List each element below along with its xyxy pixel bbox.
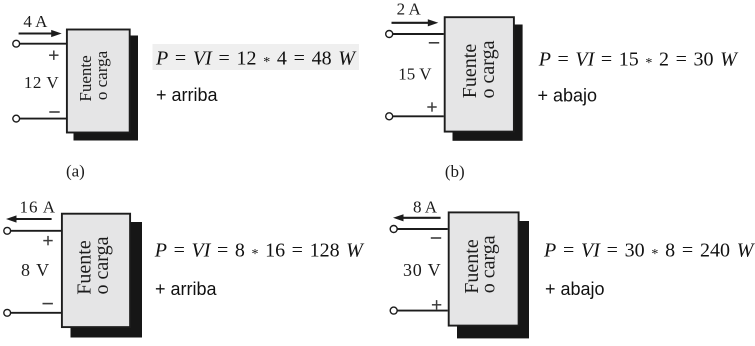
wire, top terminal to box, a — [20, 43, 66, 45]
svg-text:P = VI = 30 * 8 = 240 W: P = VI = 30 * 8 = 240 W — [543, 240, 755, 263]
wire, bottom terminal to box, b — [393, 115, 444, 117]
polarity sign plus (top), c — [43, 236, 52, 245]
svg-text:o carga: o carga — [477, 40, 499, 98]
polarity sign plus (bottom), b — [427, 102, 436, 111]
polarity sign minus (top), b — [429, 42, 439, 44]
formula highlight background — [153, 44, 360, 70]
wire, bottom terminal to box, a — [20, 118, 66, 120]
svg-text:16 A: 16 A — [20, 198, 57, 217]
current direction arrow 16 A, c — [6, 215, 52, 222]
box Ua drop shadow — [74, 36, 139, 141]
polarity sign minus (top), d — [431, 237, 441, 239]
svg-text:+ arriba: + arriba — [155, 279, 218, 299]
terminal (open circle), bottom, a — [13, 115, 20, 122]
svg-text:(a): (a) — [66, 162, 85, 181]
terminal (open circle), top, b — [386, 31, 393, 38]
current direction arrow 8 A, d — [393, 214, 441, 221]
svg-text:+ abajo: + abajo — [545, 279, 605, 299]
svg-text:2 A: 2 A — [397, 0, 422, 19]
terminal (open circle), top, d — [390, 226, 397, 233]
box Ub "Fuente o carga" (source or load) — [445, 17, 514, 131]
current direction arrow 4 A, a — [19, 30, 62, 37]
box Ud "Fuente o carga" (source or load) — [449, 212, 519, 325]
svg-text:8 V: 8 V — [21, 260, 50, 280]
svg-text:15 V: 15 V — [398, 65, 432, 84]
svg-text:P = VI = 8 * 16 = 128 W: P = VI = 8 * 16 = 128 W — [154, 240, 365, 263]
svg-text:30 V: 30 V — [403, 260, 441, 280]
svg-text:P = VI = 15 * 2 = 30 W: P = VI = 15 * 2 = 30 W — [538, 48, 739, 71]
current direction arrow 2 A, b — [392, 19, 439, 26]
wire, top terminal to box, c — [11, 230, 61, 232]
terminal (open circle), top, c — [4, 227, 11, 234]
svg-text:8 A: 8 A — [413, 197, 438, 216]
wire, bottom terminal to box, d — [397, 310, 448, 312]
box Uc drop shadow — [71, 222, 143, 338]
svg-text:+ arriba: + arriba — [156, 85, 219, 105]
svg-text:4 A: 4 A — [23, 12, 48, 31]
polarity sign minus (bottom), a — [49, 111, 59, 113]
polarity sign plus (bottom), d — [432, 300, 441, 309]
box Ud drop shadow — [457, 221, 529, 338]
wire, top terminal to box, b — [393, 33, 444, 35]
svg-text:o carga: o carga — [91, 236, 113, 294]
polarity sign plus (top), a — [49, 51, 58, 60]
svg-text:o carga: o carga — [92, 50, 111, 100]
wire, bottom terminal to box, c — [11, 312, 61, 314]
box Ua "Fuente o carga" (source or load) — [67, 30, 130, 133]
svg-text:+ abajo: + abajo — [538, 86, 598, 106]
box Ub drop shadow — [453, 25, 523, 141]
wire, top terminal to box, d — [397, 228, 448, 230]
terminal (open circle), bottom, d — [390, 307, 397, 314]
terminal (open circle), top, a — [13, 40, 20, 47]
terminal (open circle), bottom, c — [4, 309, 11, 316]
box Uc "Fuente o carga" (source or load) — [62, 214, 130, 327]
svg-text:P = VI = 12 * 4 = 48 W: P = VI = 12 * 4 = 48 W — [155, 48, 357, 71]
svg-text:(b): (b) — [445, 162, 465, 181]
svg-text:o carga: o carga — [478, 235, 500, 293]
polarity sign minus (bottom), c — [43, 303, 53, 305]
terminal (open circle), bottom, b — [386, 113, 393, 120]
svg-text:12 V: 12 V — [24, 73, 59, 92]
